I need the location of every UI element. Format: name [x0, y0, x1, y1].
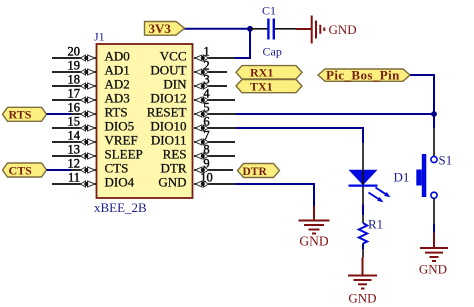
svg-text:VCC: VCC — [160, 49, 187, 64]
svg-text:15: 15 — [68, 115, 81, 129]
svg-text:CTS: CTS — [105, 161, 129, 176]
resistor R1 — [359, 217, 383, 244]
port RX1 — [236, 66, 302, 80]
svg-text:RX1: RX1 — [250, 66, 273, 80]
svg-text:GND: GND — [158, 175, 186, 190]
svg-text:16: 16 — [68, 101, 81, 115]
svg-text:19: 19 — [68, 59, 81, 73]
svg-text:S1: S1 — [439, 153, 453, 168]
svg-text:Cap: Cap — [263, 45, 282, 59]
svg-text:GND: GND — [419, 262, 447, 277]
svg-text:C1: C1 — [262, 4, 276, 18]
svg-text:DOUT: DOUT — [150, 63, 186, 78]
svg-text:18: 18 — [68, 73, 81, 87]
junction node pin5/S1 — [431, 111, 437, 117]
capacitor C1 — [250, 4, 297, 59]
svg-text:DIO12: DIO12 — [150, 91, 186, 106]
svg-text:AD3: AD3 — [105, 91, 130, 106]
connector J1 (xBEE_2B module) — [94, 30, 193, 216]
svg-text:TX1: TX1 — [250, 79, 273, 93]
component J1 body — [97, 44, 193, 198]
svg-text:RTS: RTS — [105, 105, 128, 120]
svg-text:D1: D1 — [394, 170, 410, 185]
svg-text:3V3: 3V3 — [149, 21, 172, 36]
svg-text:VREF: VREF — [105, 133, 138, 148]
svg-text:DIO4: DIO4 — [105, 175, 135, 190]
svg-text:AD2: AD2 — [105, 77, 130, 92]
right pin names — [147, 49, 187, 190]
svg-text:13: 13 — [68, 143, 81, 157]
port DTR — [238, 164, 280, 179]
pin direction arrows (right pins) — [195, 55, 209, 187]
svg-text:11: 11 — [68, 171, 80, 185]
svg-text:AD1: AD1 — [105, 63, 130, 78]
svg-text:20: 20 — [68, 45, 81, 59]
svg-text:DTR: DTR — [161, 161, 187, 176]
wire S1 to GND — [433, 198, 435, 224]
svg-text:RTS: RTS — [9, 108, 32, 122]
pin direction arrows (left pins) — [81, 55, 96, 187]
svg-text:DTR: DTR — [243, 166, 268, 178]
svg-text:DIO11: DIO11 — [151, 133, 187, 148]
left pin numbers — [68, 45, 81, 185]
svg-text:GND: GND — [299, 234, 328, 249]
port Pic_Bos_Pin — [318, 68, 410, 83]
ground GND top right (rotated) — [296, 16, 324, 44]
power port 3V3 — [145, 21, 185, 36]
ground GND below S1 — [420, 233, 448, 262]
svg-text:AD0: AD0 — [105, 49, 130, 64]
svg-text:Pic_Bos_Pin: Pic_Bos_Pin — [326, 68, 400, 83]
svg-text:R1: R1 — [368, 217, 383, 232]
svg-text:DIN: DIN — [163, 77, 187, 92]
svg-text:CTS: CTS — [9, 163, 33, 177]
svg-text:xBEE_2B: xBEE_2B — [94, 200, 147, 215]
svg-text:GND: GND — [348, 291, 376, 306]
svg-text:17: 17 — [68, 87, 81, 101]
wire R1 to ground — [362, 244, 364, 258]
port CTS — [3, 163, 72, 177]
left pin names — [105, 49, 143, 190]
svg-text:RES: RES — [163, 147, 187, 162]
port RTS — [3, 107, 72, 121]
svg-text:SLEEP: SLEEP — [105, 147, 143, 162]
wire junction to S1 — [433, 114, 435, 128]
svg-text:14: 14 — [68, 129, 81, 143]
wire Pic_Bos_Pin to junction — [410, 75, 434, 114]
LED D1 — [349, 143, 410, 223]
wire junction down to pin1 — [235, 29, 250, 58]
wire 3V3 to junction — [184, 28, 250, 30]
svg-text:DIO10: DIO10 — [150, 119, 186, 134]
port TX1 — [236, 79, 302, 93]
right pin numbers — [200, 45, 213, 185]
svg-text:DIO5: DIO5 — [105, 119, 135, 134]
svg-text:J1: J1 — [94, 30, 105, 44]
right pin stubs pins 1..10 — [194, 58, 236, 184]
wire pin5 net — [236, 113, 434, 115]
ground GND below R1 — [348, 258, 377, 289]
svg-text:RESET: RESET — [147, 105, 187, 120]
left pin stubs pins 20..11 — [52, 58, 96, 184]
switch S1 — [416, 153, 452, 199]
ground GND pin10 net — [299, 206, 330, 234]
wire pin10 to ground — [235, 184, 314, 206]
wire pin6 to LED — [236, 128, 363, 143]
junction dot top — [247, 26, 253, 32]
svg-text:12: 12 — [68, 157, 81, 171]
svg-text:GND: GND — [329, 22, 357, 37]
